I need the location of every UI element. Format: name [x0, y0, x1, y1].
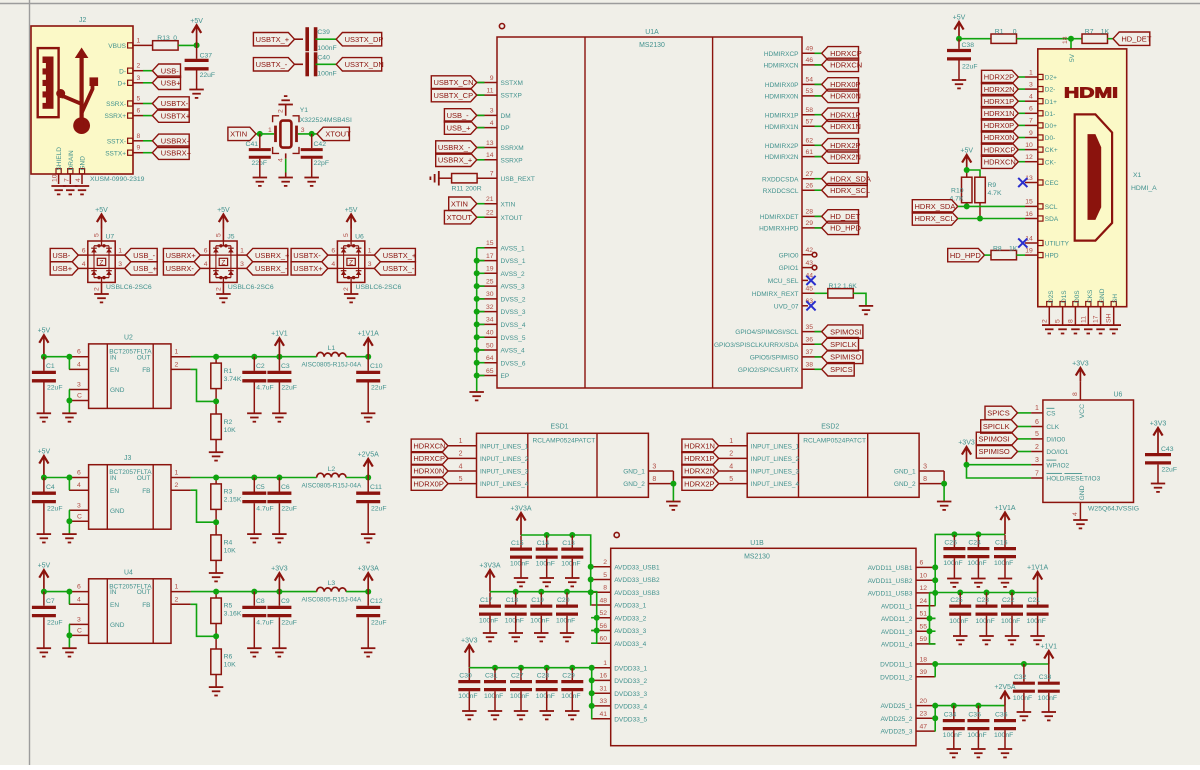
svg-text:HDRXCN: HDRXCN — [413, 442, 445, 451]
ground — [666, 502, 681, 510]
junction — [932, 590, 938, 596]
svg-text:19: 19 — [486, 266, 494, 273]
regulator U2 pin 4 EN — [69, 368, 89, 370]
wire XTIN to crystal pin 1 — [256, 133, 274, 135]
U1A pin 36 GPIO3/SPISCLK/URRX/SDA — [802, 343, 822, 345]
regulator J3 pin 2 FB — [171, 489, 191, 491]
svg-text:34: 34 — [486, 317, 494, 324]
net flag USBRX+ — [143, 152, 152, 154]
svg-text:C25: C25 — [950, 597, 963, 604]
ESD array U6 internal diodes — [350, 241, 352, 246]
svg-text:RXDDCSDA: RXDDCSDA — [762, 176, 799, 183]
capacitor C28 100nF — [546, 668, 548, 680]
svg-text:C14: C14 — [537, 540, 550, 547]
svg-text:2.15K: 2.15K — [224, 497, 242, 504]
U1A pin 13 SSRXM — [478, 147, 498, 149]
wire FB loop — [191, 369, 217, 401]
junction — [1009, 590, 1015, 596]
junction — [975, 703, 981, 709]
svg-text:8: 8 — [1072, 392, 1079, 396]
svg-text:45: 45 — [806, 286, 814, 293]
junction — [588, 577, 594, 583]
svg-text:UTILITY: UTILITY — [1045, 241, 1070, 248]
svg-text:XTIN: XTIN — [451, 199, 468, 208]
wire DVDD11 rail — [936, 663, 1049, 665]
svg-text:OUT: OUT — [137, 475, 151, 482]
svg-text:4: 4 — [278, 158, 285, 162]
svg-text:2: 2 — [459, 451, 463, 458]
svg-text:HDMIRX2P: HDMIRX2P — [765, 143, 799, 150]
junction — [932, 703, 938, 709]
U1A pin 9 SSTXM — [478, 82, 498, 84]
capacitor C27 100nF — [520, 668, 522, 680]
wire — [934, 579, 936, 581]
supply +3V3 WP/HOLD — [966, 447, 968, 465]
ground — [953, 636, 968, 644]
net flag SPICLK — [815, 343, 822, 345]
svg-text:MS2130: MS2130 — [639, 42, 665, 49]
svg-text:D1S: D1S — [1061, 290, 1068, 303]
svg-text:100nF: 100nF — [1013, 695, 1032, 702]
ground — [565, 711, 580, 719]
junction — [588, 589, 594, 595]
net flag HDRXCP — [1018, 149, 1025, 151]
svg-text:3: 3 — [490, 108, 494, 115]
no-connect cross — [806, 276, 815, 285]
wire +5V to IN — [44, 477, 69, 479]
svg-text:3: 3 — [923, 463, 927, 470]
svg-text:33: 33 — [599, 698, 607, 705]
U1A pin 53 HDMIRX0N — [802, 95, 822, 97]
HDMI pin 6 D1- — [1038, 111, 1043, 116]
resistor R10 4.7K — [966, 170, 968, 177]
svg-text:53: 53 — [806, 88, 814, 95]
wire — [591, 617, 597, 619]
svg-text:SDA: SDA — [1045, 216, 1059, 223]
junction — [41, 354, 47, 360]
net flag HDRXCP — [815, 52, 822, 54]
svg-text:59: 59 — [920, 636, 928, 643]
net flag USBRX_+ — [247, 248, 288, 261]
ground — [534, 633, 549, 641]
svg-text:U4: U4 — [124, 569, 133, 576]
U1A pin 38 GPIO2/SPICS/URTX — [802, 368, 822, 370]
svg-text:FB: FB — [142, 602, 150, 609]
capacitor C14 100nF — [546, 536, 548, 548]
HDMI pin 2 D2S — [1047, 302, 1052, 307]
svg-text:3.16K: 3.16K — [224, 611, 242, 618]
svg-text:OUT: OUT — [137, 589, 151, 596]
U1A pin 7 USB_REXT — [478, 177, 498, 179]
svg-text:4: 4 — [729, 463, 733, 470]
net flag SPICLK — [1018, 426, 1032, 428]
svg-text:1: 1 — [1029, 69, 1033, 76]
svg-text:4: 4 — [1072, 512, 1079, 516]
svg-text:22uF: 22uF — [371, 506, 387, 513]
J2 pin 3 D+ — [128, 80, 133, 85]
svg-text:GND: GND — [110, 387, 125, 394]
regulator J3 body — [89, 465, 171, 530]
ESD1 pin 5 INPUT_LINES_4 — [448, 483, 477, 485]
svg-text:1: 1 — [175, 584, 179, 591]
ground — [488, 711, 502, 719]
svg-text:6: 6 — [77, 470, 81, 477]
wire — [316, 38, 337, 40]
wire — [590, 591, 593, 593]
svg-text:L3: L3 — [328, 580, 336, 587]
svg-text:DVSS_3: DVSS_3 — [501, 309, 526, 316]
ESD1 pin 3 GND_1 — [648, 470, 673, 472]
net flag XTIN — [477, 203, 485, 205]
junction — [569, 532, 575, 538]
svg-text:SPIMOSI: SPIMOSI — [979, 435, 1010, 444]
junction — [66, 589, 72, 595]
svg-text:1: 1 — [268, 127, 272, 134]
net flag SPICS — [1018, 412, 1032, 414]
svg-text:100nF: 100nF — [317, 45, 336, 52]
wire — [477, 272, 485, 274]
ESD2 ground tie — [943, 471, 945, 484]
svg-text:15: 15 — [1025, 199, 1033, 206]
J2 pin 9 SSTX+ — [128, 150, 133, 155]
net flag USBTX+ — [143, 115, 152, 117]
svg-text:C28: C28 — [537, 673, 550, 680]
U1A pin 57 HDMIRX1N — [802, 125, 822, 127]
capacitor C41 — [259, 134, 261, 148]
ground — [937, 502, 952, 510]
svg-text:HDMI: HDMI — [1064, 85, 1118, 102]
wire — [590, 692, 593, 694]
svg-text:USB-: USB- — [52, 251, 70, 260]
net flag SPIMISO — [1018, 451, 1032, 453]
svg-text:SH: SH — [1106, 313, 1113, 323]
svg-text:VBUS: VBUS — [108, 43, 126, 50]
svg-text:4: 4 — [459, 463, 463, 470]
wire — [477, 298, 485, 300]
ESD array J5 right pins — [237, 254, 247, 256]
svg-text:DVDD33_4: DVDD33_4 — [614, 704, 647, 711]
ground — [565, 578, 580, 586]
flash pin 3 WP/IO2 — [1031, 464, 1043, 466]
svg-text:USBTX-: USBTX- — [161, 99, 189, 108]
svg-text:9: 9 — [1029, 130, 1033, 137]
svg-text:C40: C40 — [317, 54, 330, 61]
svg-text:GND_1: GND_1 — [623, 469, 645, 476]
net flag HDRX0P — [411, 477, 448, 490]
svg-text:100nF: 100nF — [943, 560, 962, 567]
wire +5V to IN — [44, 356, 69, 358]
ground — [971, 579, 986, 587]
svg-text:AVDD25_1: AVDD25_1 — [880, 703, 912, 710]
net flag HDRX0N — [1018, 137, 1025, 139]
capacitor C36 100nF — [1004, 706, 1006, 719]
svg-text:4: 4 — [204, 261, 208, 268]
svg-text:8: 8 — [1067, 319, 1074, 323]
svg-text:INPUT_LINES_2: INPUT_LINES_2 — [751, 456, 800, 463]
junction — [276, 354, 282, 360]
svg-text:INPUT_LINES_1: INPUT_LINES_1 — [480, 443, 529, 450]
svg-text:XTOUT: XTOUT — [501, 215, 523, 222]
HDMI pin 15 SCL — [1038, 204, 1043, 209]
unconnected marker — [812, 265, 817, 270]
svg-text:SHIELD: SHIELD — [56, 147, 63, 171]
wire — [590, 566, 593, 568]
svg-text:INPUT_LINES_3: INPUT_LINES_3 — [751, 469, 800, 476]
svg-text:+1V1: +1V1 — [271, 331, 288, 338]
U1A pin 46 HDMIRXCN — [802, 64, 822, 66]
wire — [934, 592, 936, 594]
svg-text:D0+: D0+ — [1045, 123, 1057, 130]
capacitor C37 — [196, 45, 198, 59]
net flag HDRX_SDA — [912, 200, 958, 213]
wire GND to C pin chain — [68, 510, 70, 521]
svg-text:R6: R6 — [224, 654, 233, 661]
ground — [1073, 520, 1088, 528]
junction — [276, 589, 282, 595]
wire — [930, 617, 936, 619]
svg-text:J5: J5 — [227, 234, 234, 241]
ground — [1005, 636, 1019, 644]
svg-text:22uF: 22uF — [281, 506, 297, 513]
HDMI pin 10 CK+ — [1038, 147, 1043, 152]
junction — [544, 665, 550, 671]
svg-text:4.7K: 4.7K — [988, 190, 1002, 197]
junction — [474, 296, 480, 302]
U1A pin 54 HDMIRX0P — [802, 83, 822, 85]
svg-text:5: 5 — [603, 572, 607, 579]
svg-text:18: 18 — [920, 656, 928, 663]
svg-text:USB+: USB+ — [52, 264, 72, 273]
svg-text:21: 21 — [486, 196, 494, 203]
svg-text:22uF: 22uF — [47, 506, 63, 513]
svg-text:CLK: CLK — [1046, 424, 1059, 431]
svg-text:6: 6 — [1029, 106, 1033, 113]
flash pin 4 GND — [1079, 502, 1081, 520]
U1B pin 10 AVDD11_USB2 — [916, 579, 936, 581]
svg-text:C26: C26 — [944, 540, 957, 547]
svg-text:5: 5 — [94, 233, 101, 237]
svg-text:DVSS_1: DVSS_1 — [501, 258, 526, 265]
U1A pin 4 DP — [478, 127, 498, 129]
net flag HDRX2P — [1018, 76, 1025, 78]
svg-text:AVDD11_USB3: AVDD11_USB3 — [868, 591, 913, 598]
net flag HDRX1P — [682, 452, 719, 465]
svg-text:C23: C23 — [977, 597, 990, 604]
svg-text:100nF: 100nF — [458, 693, 477, 700]
pin name overlines — [1046, 407, 1054, 409]
svg-text:US3TX_DN: US3TX_DN — [345, 60, 384, 69]
svg-text:C31: C31 — [485, 673, 498, 680]
svg-text:35: 35 — [806, 324, 814, 331]
svg-text:D2S: D2S — [1048, 290, 1055, 303]
svg-text:SH: SH — [1112, 294, 1119, 303]
wire — [590, 679, 593, 681]
ground — [998, 579, 1012, 587]
frame border left line — [29, 0, 31, 765]
ESD2 pin 2 INPUT_LINES_2 — [719, 457, 748, 459]
net flag HDRX1N — [815, 125, 822, 127]
svg-text:4: 4 — [75, 178, 82, 182]
svg-text:GND: GND — [1099, 288, 1106, 303]
ground — [560, 633, 574, 641]
junction — [589, 677, 595, 683]
svg-text:R11 200R: R11 200R — [452, 186, 482, 193]
ground — [1042, 712, 1057, 720]
U1A pin 37 GPIO5/SPIMISO — [802, 356, 822, 358]
resistor R8 1K — [985, 254, 992, 256]
ESD2 pin 1 INPUT_LINES_1 — [719, 445, 748, 447]
U1A pin 15 AVSS_1 — [478, 247, 498, 249]
svg-text:100nF: 100nF — [561, 561, 580, 568]
wire +5V to IN — [44, 591, 69, 593]
net flag USB+ — [50, 262, 78, 275]
svg-text:R7: R7 — [1085, 29, 1094, 36]
U1B pin 47 AVDD25_3 — [916, 730, 936, 732]
svg-text:22uF: 22uF — [281, 620, 297, 627]
wire DVDD33 rail — [469, 667, 591, 669]
svg-text:+5V: +5V — [190, 18, 203, 25]
svg-text:18: 18 — [1062, 36, 1069, 44]
svg-text:USBRX_-: USBRX_- — [438, 143, 471, 152]
svg-text:5: 5 — [343, 233, 350, 237]
svg-text:C18: C18 — [506, 597, 519, 604]
svg-text:AVDD33_1: AVDD33_1 — [614, 603, 646, 610]
ground — [361, 413, 376, 421]
svg-text:D-: D- — [119, 68, 126, 75]
ESD array J5 body — [210, 241, 237, 282]
U1A pin 61 HDMIRX2N — [802, 156, 822, 158]
ground — [37, 648, 52, 656]
svg-text:3: 3 — [652, 463, 656, 470]
svg-text:41: 41 — [599, 711, 607, 718]
HDMI pin 11 CKS — [1086, 302, 1091, 307]
svg-text:DO/IO1: DO/IO1 — [1046, 449, 1068, 456]
svg-text:22uF: 22uF — [962, 64, 978, 71]
svg-text:36: 36 — [806, 337, 814, 344]
U1A pin 26 RXDDCSCL — [802, 189, 822, 191]
junction — [951, 531, 957, 537]
net flag HDRX0N — [411, 464, 448, 477]
svg-text:HD_DET: HD_DET — [830, 212, 860, 221]
capacitor C43 — [1145, 453, 1171, 456]
U1B pin 16 DVDD33_2 — [591, 679, 611, 681]
svg-text:8: 8 — [137, 133, 141, 140]
HDMI pin SH SH — [1111, 302, 1116, 307]
svg-text:+1V1: +1V1 — [1041, 644, 1058, 651]
U1A pin 29 HDMIRXHPD — [802, 227, 822, 229]
svg-text:HDRX1P: HDRX1P — [984, 97, 1014, 106]
net flag USB_+ — [125, 262, 158, 275]
svg-text:1: 1 — [118, 248, 122, 255]
svg-text:D1-: D1- — [1045, 111, 1055, 118]
svg-text:10K: 10K — [224, 427, 237, 434]
svg-text:100nF: 100nF — [561, 693, 580, 700]
svg-text:HD_HPD: HD_HPD — [830, 224, 861, 233]
svg-text:20: 20 — [920, 698, 928, 705]
ground flipped above crystal — [278, 104, 293, 106]
wire OUT rail — [191, 477, 317, 479]
svg-text:HDMI_A: HDMI_A — [1131, 185, 1157, 192]
svg-text:22uF: 22uF — [47, 385, 63, 392]
U1A pin 50 AVSS_4 — [478, 349, 498, 351]
wire — [477, 323, 485, 325]
svg-text:+3V3A: +3V3A — [358, 566, 380, 573]
capacitor C23 100nF — [986, 593, 988, 605]
svg-text:4: 4 — [1029, 94, 1033, 101]
svg-text:HDRXCP: HDRXCP — [984, 145, 1016, 154]
net flag SPIMISO — [815, 356, 822, 358]
ESD array U6 pin 2 ground — [350, 282, 352, 294]
svg-text:AVDD33_USB3: AVDD33_USB3 — [614, 590, 660, 597]
regulator J3 pin 3 GND — [69, 509, 89, 511]
svg-text:47: 47 — [920, 723, 928, 730]
J2 pin 7 DRAIN — [68, 169, 73, 174]
ground — [947, 579, 962, 587]
svg-text:U2: U2 — [124, 334, 133, 341]
U1A pin 30 DVSS_2 — [478, 298, 498, 300]
svg-text:C2: C2 — [256, 363, 265, 370]
svg-text:DRAIN: DRAIN — [68, 150, 75, 171]
svg-text:HDRXCP: HDRXCP — [830, 49, 862, 58]
svg-text:D+: D+ — [118, 80, 127, 87]
svg-text:INPUT_LINES_2: INPUT_LINES_2 — [480, 456, 529, 463]
ground — [540, 711, 555, 719]
ground — [247, 648, 262, 656]
svg-text:ESD2: ESD2 — [821, 424, 839, 431]
svg-text:6: 6 — [204, 248, 208, 255]
junction — [66, 475, 72, 481]
no-connect cross — [1018, 178, 1027, 187]
junction — [309, 131, 315, 137]
svg-text:32: 32 — [486, 304, 494, 311]
svg-text:OUT: OUT — [137, 354, 151, 361]
svg-text:HDMIRX1P: HDMIRX1P — [765, 112, 799, 119]
svg-text:USBTX_CN: USBTX_CN — [434, 78, 474, 87]
junction — [564, 589, 570, 595]
svg-text:100nF: 100nF — [967, 732, 986, 739]
svg-text:UVD_07: UVD_07 — [774, 303, 799, 310]
net flag USBTX_CN — [477, 82, 485, 84]
ground — [1151, 484, 1165, 492]
net flag HDRX_SDA — [815, 178, 822, 180]
flash pin 1 CS — [1031, 412, 1043, 414]
wire crystal pin 3 to XTOUT — [298, 133, 317, 135]
supply +3V3A cluster B — [489, 570, 491, 592]
svg-text:HDMIRX2N: HDMIRX2N — [765, 154, 799, 161]
net flag HD_HPD — [948, 248, 985, 261]
svg-text:USBTX_+: USBTX_+ — [383, 251, 417, 260]
capacitor C40 — [295, 63, 304, 65]
flash pin 2 DO/IO1 — [1031, 451, 1043, 453]
supply +5V HDMI — [958, 22, 960, 39]
U1B pin 52 AVDD33_2 — [591, 617, 611, 619]
junction — [66, 398, 72, 404]
junction — [588, 564, 594, 570]
svg-text:DVDD11_2: DVDD11_2 — [880, 674, 913, 681]
svg-text:1: 1 — [368, 248, 372, 255]
svg-text:R2: R2 — [224, 419, 233, 426]
net flag XTOUT — [477, 216, 485, 218]
svg-text:4: 4 — [490, 120, 494, 127]
ground — [75, 186, 89, 194]
svg-text:+3V3: +3V3 — [271, 566, 288, 573]
ESD1 pin 2 INPUT_LINES_2 — [448, 457, 477, 459]
svg-text:4.7uF: 4.7uF — [256, 506, 273, 513]
U1B pin 41 DVDD33_5 — [591, 718, 611, 720]
svg-text:MCU_SEL: MCU_SEL — [768, 278, 799, 285]
wire after inductor — [346, 356, 368, 358]
svg-text:SSTX+: SSTX+ — [105, 150, 126, 157]
